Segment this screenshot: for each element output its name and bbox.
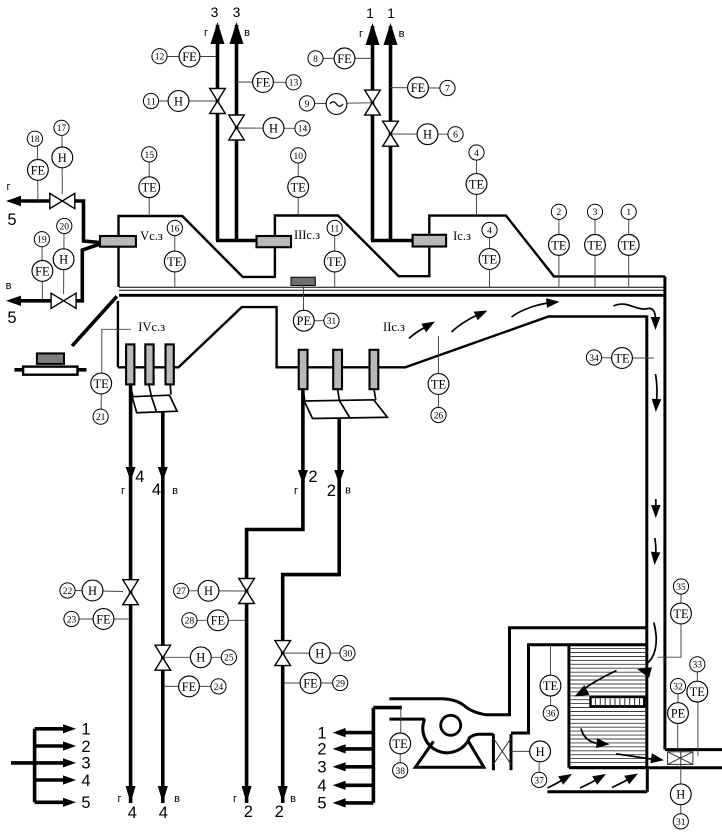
instrument H-37 [511, 741, 550, 788]
fins IIс.з [303, 389, 387, 418]
instrument H-11 [143, 91, 216, 112]
svg-text:FE: FE [303, 676, 318, 690]
heat exchanger element IVс.з-1 [126, 344, 134, 384]
instrument FE-8 [308, 48, 371, 69]
svg-text:г: г [294, 485, 298, 497]
svg-text:TE: TE [469, 177, 485, 191]
heat exchanger element IIс.з-2 [333, 350, 342, 389]
svg-text:IIIс.з: IIIс.з [294, 228, 320, 242]
svg-text:7: 7 [445, 84, 450, 94]
svg-text:PE: PE [671, 707, 686, 721]
downcomer flow arrow 2 [652, 374, 662, 412]
svg-text:H: H [423, 128, 432, 142]
svg-text:TE: TE [482, 252, 498, 266]
svg-text:2: 2 [244, 803, 253, 821]
instrument TE-21 [91, 329, 131, 424]
igniter device dark block [37, 353, 64, 364]
valve on г outlet [50, 193, 63, 208]
instrument PE-31 [293, 285, 339, 331]
svg-text:4: 4 [81, 772, 90, 790]
instrument TE-10 on IIIс.з roof [288, 148, 309, 216]
flow arrow b [452, 311, 488, 333]
svg-text:TE: TE [587, 238, 603, 252]
instrument FE-29 [284, 673, 348, 694]
air inlet right wall [646, 768, 649, 792]
instrument FE-18 [27, 131, 48, 201]
svg-text:в: в [6, 280, 12, 292]
svg-text:в: в [174, 793, 180, 805]
fan outlet lower line [469, 734, 494, 738]
manifold 1-5 return header [317, 708, 401, 813]
svg-text:г: г [233, 793, 237, 805]
instrument TE-34 [586, 348, 654, 369]
svg-text:2: 2 [81, 738, 90, 756]
igniter device base [14, 367, 86, 375]
svg-text:H: H [536, 745, 545, 759]
svg-text:37: 37 [534, 776, 544, 786]
svg-text:TE: TE [431, 377, 447, 391]
svg-text:H: H [88, 584, 97, 598]
heat exchanger element IVс.з-2 [145, 344, 153, 384]
valve on IVс.з-в pipe [155, 645, 171, 658]
instrument H-6 [392, 124, 464, 145]
svg-text:H: H [174, 94, 183, 108]
svg-text:10: 10 [293, 152, 303, 162]
svg-text:23: 23 [67, 615, 77, 625]
downcomer inner wall [645, 316, 648, 769]
pipe IIс.з-в downcomer [278, 418, 345, 804]
svg-text:IIс.з: IIс.з [383, 320, 405, 334]
section Iс.з outline [429, 216, 665, 277]
burner IIIс.з [257, 236, 292, 247]
svg-text:34: 34 [589, 354, 599, 364]
svg-text:TE: TE [551, 238, 567, 252]
svg-text:2: 2 [308, 468, 317, 486]
pipe 1-в riser with outlet arrow [384, 23, 398, 241]
downcomer flow arrow 3 [651, 499, 661, 518]
svg-text:29: 29 [335, 679, 345, 689]
svg-text:1: 1 [81, 721, 90, 739]
duct left diagonal wire [72, 296, 117, 346]
svg-text:35: 35 [676, 583, 686, 593]
svg-text:1: 1 [626, 208, 631, 218]
svg-text:TE: TE [673, 607, 689, 621]
svg-text:17: 17 [57, 124, 67, 134]
svg-text:16: 16 [170, 224, 180, 234]
fan suction lower line [389, 718, 424, 721]
svg-text:3: 3 [211, 4, 219, 20]
svg-text:FE: FE [211, 614, 226, 628]
svg-text:5: 5 [81, 794, 90, 812]
svg-text:28: 28 [185, 617, 195, 627]
svg-text:3: 3 [233, 4, 241, 20]
duct upper thin line [119, 286, 665, 288]
svg-text:4: 4 [487, 226, 492, 236]
air inlet flow arrow 1 [548, 774, 573, 788]
economizer coil bundle [591, 697, 645, 706]
instrument H-27 [174, 580, 246, 601]
svg-text:FE: FE [256, 75, 271, 89]
section IVс.з left wall [117, 301, 119, 367]
svg-text:13: 13 [289, 79, 299, 89]
svg-text:2: 2 [327, 482, 336, 500]
flue outlet duct top [665, 748, 722, 751]
heat exchanger element IIс.з-3 [370, 350, 379, 389]
fan suction and outer casing wall [389, 628, 646, 715]
svg-text:36: 36 [546, 710, 556, 720]
pipe 3-г riser with outlet arrow [211, 22, 225, 241]
svg-text:TE: TE [543, 679, 559, 693]
valve on 3-г riser [210, 89, 226, 102]
pipe 3-в riser with outlet arrow [230, 22, 244, 241]
svg-text:TE: TE [167, 255, 183, 269]
svg-text:FE: FE [337, 52, 352, 66]
svg-text:TE: TE [291, 180, 307, 194]
instrument H-25 [164, 647, 237, 668]
flow arrow c [512, 298, 560, 317]
svg-text:2: 2 [317, 741, 326, 759]
flow arrow d into downcomer [614, 304, 661, 330]
instrument FE-12 [152, 46, 216, 67]
instrument TE-4 on duct [479, 222, 500, 287]
instrument FE-23 [64, 609, 129, 630]
instrument TE-1 on duct [618, 204, 639, 287]
instrument 9-motor [299, 94, 371, 115]
instrument 20-H [53, 218, 74, 294]
instrument TE-38 [390, 708, 411, 778]
svg-text:3: 3 [593, 208, 598, 218]
downcomer outer wall [663, 276, 666, 749]
svg-text:3: 3 [81, 755, 90, 773]
svg-text:38: 38 [395, 767, 405, 777]
pipe в outlet line 5 [6, 244, 100, 306]
instrument H-22 [60, 580, 123, 601]
svg-text:в: в [399, 28, 405, 40]
svg-text:г: г [204, 27, 208, 39]
wire connector to IIIс.з burner [216, 239, 258, 243]
pipe IVс.з-г downcomer [126, 385, 136, 804]
svg-text:H: H [58, 151, 67, 165]
svg-text:1: 1 [366, 5, 374, 21]
svg-text:33: 33 [693, 661, 703, 671]
instrument TE-4 on Iс.з roof [466, 145, 487, 216]
svg-text:31: 31 [676, 818, 686, 828]
svg-text:1: 1 [387, 5, 395, 21]
valve on IVс.з-г pipe [123, 580, 139, 593]
svg-text:H: H [315, 647, 324, 661]
butterfly valve H-31 [668, 750, 693, 769]
flow arrow into flue valve [616, 753, 664, 763]
valve on IIс.з-г pipe [239, 579, 255, 592]
svg-text:TE: TE [393, 737, 409, 751]
instrument TE-35 [658, 579, 692, 657]
svg-text:14: 14 [298, 125, 308, 135]
svg-text:г: г [121, 485, 125, 497]
pipe г outlet line 5 [6, 196, 100, 243]
svg-text:32: 32 [673, 683, 683, 693]
economizer flow arrow 3 [581, 729, 610, 749]
burner Iс.з [413, 235, 447, 247]
svg-text:1: 1 [317, 724, 326, 742]
fins IVс.з [130, 385, 177, 413]
economizer hatched gas pass [571, 649, 646, 767]
sensor pad PE-31 [291, 277, 315, 285]
valve on 1-в riser [383, 121, 399, 134]
svg-text:5: 5 [7, 211, 16, 229]
instrument PE-32 [668, 679, 689, 750]
svg-text:Iс.з: Iс.з [453, 229, 471, 243]
svg-text:4: 4 [317, 777, 326, 795]
svg-text:H: H [59, 253, 68, 267]
air inlet flow arrow 3 [612, 774, 638, 788]
svg-text:21: 21 [96, 413, 106, 423]
svg-text:FE: FE [182, 680, 197, 694]
svg-text:18: 18 [30, 135, 40, 145]
economizer flow arrow 1 [637, 623, 656, 678]
svg-text:H: H [269, 121, 278, 135]
svg-text:26: 26 [434, 411, 444, 421]
svg-text:FE: FE [411, 81, 426, 95]
svg-text:H: H [204, 584, 213, 598]
instrument 19-FE [32, 232, 53, 300]
svg-text:TE: TE [621, 238, 637, 252]
svg-text:8: 8 [313, 55, 318, 65]
damper valve H-37 [493, 734, 511, 770]
svg-text:TE: TE [94, 377, 110, 391]
air inlet floor [547, 790, 647, 793]
instrument H-31 [670, 769, 691, 830]
svg-text:FE: FE [35, 264, 50, 278]
svg-text:9: 9 [305, 100, 310, 110]
svg-text:PE: PE [297, 314, 312, 328]
svg-text:6: 6 [453, 131, 458, 141]
svg-text:27: 27 [176, 587, 186, 597]
instrument H-30 [284, 643, 356, 664]
instrument TE-3 on duct [585, 204, 606, 287]
heat exchanger element IVс.з-3 [166, 344, 174, 384]
svg-text:H: H [676, 788, 685, 802]
instrument FE-7 [391, 77, 456, 98]
svg-text:в: в [345, 485, 351, 497]
svg-text:2: 2 [275, 803, 284, 821]
wire connector to Iс.з burner [371, 239, 414, 243]
duct lower thin line [119, 289, 665, 291]
instrument TE-26 [428, 336, 449, 423]
svg-text:31: 31 [327, 317, 337, 327]
instrument TE-36 [540, 645, 561, 721]
svg-text:25: 25 [224, 654, 234, 664]
svg-text:22: 22 [63, 587, 73, 597]
svg-text:5: 5 [317, 795, 326, 813]
instrument TE-2 on duct [549, 204, 570, 287]
section IVс.з / IIс.з boundary line [118, 307, 647, 367]
svg-text:FE: FE [182, 50, 197, 64]
svg-text:г: г [359, 28, 363, 40]
svg-text:4: 4 [152, 481, 161, 499]
valve on 3-в riser [229, 115, 245, 128]
valve on IIс.з-в pipe [275, 641, 291, 654]
instrument TE-33 [687, 657, 708, 756]
svg-text:11: 11 [146, 97, 155, 107]
svg-text:3: 3 [317, 759, 326, 777]
instrument TE-15 on Vс.з roof [139, 147, 160, 216]
svg-text:TE: TE [614, 351, 630, 365]
instrument FE-13 [237, 72, 302, 93]
svg-text:в: в [290, 793, 296, 805]
svg-text:11: 11 [330, 224, 339, 234]
burner Vс.з [100, 236, 136, 247]
duct bottom heavy line [119, 294, 665, 297]
fan hub [441, 715, 461, 735]
svg-text:H: H [196, 651, 205, 665]
svg-text:4: 4 [159, 804, 168, 822]
valve on в outlet [51, 293, 64, 308]
fan base [415, 741, 484, 767]
svg-text:в: в [172, 485, 178, 497]
svg-text:4: 4 [474, 149, 479, 159]
instrument TE-16 on duct [164, 220, 185, 287]
manifold 1-5 left header [11, 721, 91, 813]
svg-text:24: 24 [214, 683, 224, 693]
fan scroll [423, 719, 470, 753]
svg-text:г: г [6, 181, 10, 193]
svg-text:20: 20 [60, 222, 70, 232]
pipe IIс.з-г downcomer [242, 389, 308, 803]
svg-text:19: 19 [37, 236, 47, 246]
flow arrow a [409, 322, 435, 339]
svg-text:4: 4 [135, 468, 144, 486]
pipe IVс.з-в downcomer [158, 412, 168, 803]
pipe 1-г riser with outlet arrow [366, 23, 380, 241]
instrument FE-28 [182, 610, 246, 631]
svg-text:FE: FE [96, 612, 111, 626]
economizer inner casing wall [511, 645, 647, 733]
svg-text:Vс.з: Vс.з [140, 229, 163, 243]
svg-text:в: в [244, 27, 250, 39]
svg-text:12: 12 [155, 53, 165, 63]
downcomer flow arrow 4 [651, 538, 661, 565]
instrument H-14 [238, 118, 311, 139]
svg-text:IVс.з: IVс.з [138, 320, 165, 334]
svg-text:TE: TE [142, 181, 158, 195]
economizer bottom / outlet duct bottom [569, 766, 722, 769]
section IIIс.з outline [275, 216, 429, 277]
svg-text:2: 2 [557, 208, 562, 218]
svg-text:30: 30 [343, 650, 353, 660]
svg-text:5: 5 [7, 309, 16, 327]
instrument TE-11 on duct [324, 220, 345, 287]
economizer left wall [567, 645, 570, 768]
svg-text:4: 4 [128, 804, 137, 822]
valve on 1-г riser [365, 90, 381, 103]
section Vс.з outline [119, 216, 275, 287]
svg-text:15: 15 [144, 151, 154, 161]
svg-text:FE: FE [31, 163, 46, 177]
svg-text:TE: TE [690, 685, 706, 699]
instrument H-17 [52, 120, 73, 194]
economizer flow arrow 2 [575, 671, 617, 697]
svg-text:г: г [117, 793, 121, 805]
air inlet flow arrow 2 [580, 774, 606, 788]
svg-text:TE: TE [327, 255, 343, 269]
instrument FE-24 [164, 676, 227, 697]
heat exchanger element IIс.з-1 [299, 350, 308, 389]
